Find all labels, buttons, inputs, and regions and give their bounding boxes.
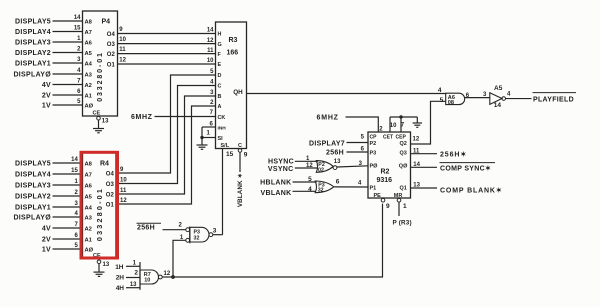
- svg-text:11: 11: [120, 188, 127, 194]
- svg-text:1H: 1H: [115, 264, 124, 271]
- svg-text:A2: A2: [85, 226, 92, 232]
- svg-text:3: 3: [213, 227, 217, 234]
- net 1H input to gate R7 pin 1: [115, 261, 140, 271]
- net 256H to R2 P3 pin 6: [326, 146, 376, 156]
- svg-text:4H: 4H: [116, 285, 125, 292]
- svg-text:12: 12: [119, 57, 126, 63]
- svg-text:14: 14: [494, 102, 502, 109]
- svg-text:10: 10: [390, 123, 397, 129]
- svg-text:C: C: [218, 84, 222, 90]
- svg-text:4: 4: [308, 186, 312, 193]
- svg-text:R3: R3: [229, 37, 238, 44]
- net DISPLAY1 input wire to R4 pin 3 (A4): [15, 201, 93, 211]
- svg-text:13: 13: [334, 159, 341, 165]
- svg-text:14: 14: [71, 157, 78, 163]
- svg-text:10: 10: [144, 278, 150, 284]
- svg-text:9: 9: [386, 203, 390, 210]
- svg-text:PØ: PØ: [370, 164, 379, 170]
- svg-text:256H: 256H: [137, 225, 155, 232]
- svg-text:B: B: [218, 94, 222, 100]
- R2 Q2 pin 12 wire up to AND gate A6 pin 5: [400, 101, 446, 147]
- net VSYNC into gate P2 pin 12: [268, 163, 318, 173]
- svg-text:166: 166: [227, 50, 239, 57]
- net 6MHZ to R2 clock pin 2 (CP): [317, 115, 384, 133]
- svg-text:13: 13: [102, 119, 109, 125]
- svg-text:9: 9: [244, 151, 248, 158]
- IC R4 vertical part number 033280-01: [95, 187, 104, 241]
- IC R2 bottom pin labels PE MR: [374, 193, 403, 199]
- svg-text:256H✶: 256H✶: [440, 151, 467, 159]
- svg-text:15: 15: [71, 168, 78, 174]
- svg-text:CK: CK: [218, 115, 226, 121]
- svg-text:VBLANK ✶: VBLANK ✶: [237, 173, 244, 207]
- svg-text:A6: A6: [85, 183, 93, 189]
- svg-text:O3: O3: [106, 182, 115, 188]
- svg-text:O1: O1: [106, 203, 115, 209]
- svg-text:DISPLAY7: DISPLAY7: [309, 140, 345, 147]
- svg-text:A4: A4: [85, 205, 93, 211]
- svg-text:12: 12: [120, 198, 127, 204]
- svg-text:2V: 2V: [42, 92, 51, 99]
- R3 C pin 9 bubble: [238, 149, 248, 159]
- red highlight rectangle around IC R4: [81, 152, 118, 258]
- P3 output pin 3 wire to R3 S/L: [213, 227, 223, 234]
- svg-text:A3: A3: [85, 72, 93, 78]
- net VBLANK into gate P3 pin 4: [261, 186, 316, 197]
- net 4H input to gate R7 pin 13: [116, 282, 140, 292]
- svg-text:E: E: [218, 62, 222, 68]
- wire R4 output O2 pin 11 to R3 pin 3 (B): [106, 90, 222, 198]
- net 1V input wire to P4 pin 5 (AØ): [42, 99, 94, 109]
- wire from junction up to gate P3 pin 1: [173, 240, 186, 277]
- svg-text:O3: O3: [107, 42, 116, 48]
- svg-text:PE: PE: [374, 193, 382, 199]
- net DISPLAY3 input wire to R4 pin 1 (A6): [15, 179, 93, 189]
- svg-text:DISPLAY2: DISPLAY2: [15, 193, 51, 200]
- svg-text:5: 5: [440, 97, 444, 104]
- R7 output pin 12 wire and junction: [162, 271, 175, 279]
- svg-text:Q1: Q1: [400, 185, 407, 191]
- wire from R7 output junction to R2 PE pin 9: [173, 204, 383, 277]
- svg-text:R2: R2: [381, 169, 390, 176]
- IC R3 74166 body: [216, 22, 247, 149]
- IC R3 S/L and C pin labels: [221, 143, 243, 149]
- svg-text:Q3: Q3: [400, 151, 407, 157]
- IC P4 name label: [102, 19, 111, 26]
- svg-text:G: G: [218, 42, 222, 48]
- IC R2 9316 body: [368, 132, 411, 198]
- svg-text:DISPLAY1: DISPLAY1: [15, 60, 51, 67]
- svg-text:P2: P2: [370, 141, 377, 147]
- svg-text:4: 4: [438, 87, 442, 94]
- ground at R2 CET/CEP: [413, 117, 423, 127]
- svg-text:O4: O4: [107, 32, 116, 38]
- R3 S/L pin 15 wire from gate P3 output: [223, 149, 234, 235]
- net 256H* into gate P3 pin 2: [137, 223, 186, 231]
- svg-text:1: 1: [403, 203, 407, 210]
- R3 INH pin 6 and SI pin 1 tied to ground: [200, 122, 226, 142]
- svg-text:11: 11: [119, 47, 126, 53]
- IC P4 vertical part number 033280-01: [97, 51, 104, 102]
- svg-text:O1: O1: [107, 62, 116, 68]
- svg-text:A1: A1: [85, 93, 93, 99]
- net DISPLAY7 to R2 P2 pin 5: [309, 135, 376, 148]
- svg-text:VBLANK: VBLANK: [261, 190, 292, 197]
- svg-text:11: 11: [207, 48, 214, 54]
- svg-text:INH: INH: [218, 125, 227, 131]
- net DISPLAYØ input wire to P4 pin 4 (A3): [13, 68, 92, 78]
- net HSYNC into gate P2 pin 1: [268, 156, 318, 165]
- svg-text:P (R3): P (R3): [393, 220, 412, 227]
- svg-text:DISPLAYØ: DISPLAYØ: [13, 71, 51, 78]
- svg-text:A5: A5: [85, 51, 93, 57]
- svg-text:P3: P3: [370, 151, 377, 157]
- svg-text:A4: A4: [85, 61, 93, 67]
- ground at R4 CE: [94, 264, 105, 277]
- svg-text:A2: A2: [85, 83, 92, 89]
- svg-text:P1: P1: [370, 186, 377, 192]
- svg-text:14: 14: [207, 28, 214, 34]
- svg-text:A8: A8: [85, 19, 93, 25]
- svg-text:PLAYFIELD: PLAYFIELD: [533, 97, 574, 104]
- svg-text:12: 12: [164, 271, 171, 277]
- svg-text:DISPLAY1: DISPLAY1: [15, 204, 51, 211]
- ground at P4 CE: [93, 120, 104, 133]
- P2 output pin 13 wire to R2 P0 pin 3: [334, 159, 378, 169]
- IC R3 name label: [227, 37, 239, 57]
- svg-text:256H: 256H: [326, 149, 344, 156]
- svg-text:CET: CET: [383, 135, 393, 141]
- svg-text:DISPLAYØ: DISPLAYØ: [13, 214, 51, 221]
- net 2H input to gate R7 pin 2: [116, 270, 140, 282]
- svg-text:12: 12: [306, 163, 313, 169]
- net DISPLAY1 input wire to P4 pin 3 (A4): [15, 57, 93, 67]
- svg-text:1V: 1V: [42, 102, 51, 109]
- svg-text:32: 32: [194, 235, 200, 241]
- P3 output pin 6 wire to R2 P1 pin 4: [334, 179, 376, 192]
- svg-text:QH: QH: [233, 89, 243, 96]
- net VBLANK* into R3 pin 9: [237, 152, 244, 207]
- svg-text:Q2: Q2: [400, 141, 407, 147]
- svg-text:10: 10: [119, 37, 126, 43]
- wire P4 output O1 pin 12 to R3 pin 10 (E): [107, 57, 222, 68]
- svg-text:A5: A5: [494, 85, 503, 92]
- svg-text:COMP BLANK✶: COMP BLANK✶: [440, 187, 503, 195]
- svg-text:H: H: [218, 32, 222, 38]
- R2 MR pin 1 stub: [397, 198, 407, 216]
- IC R2 top pin labels CP CET CEP: [370, 135, 407, 141]
- net DISPLAY3 input wire to P4 pin 1 (A6): [15, 36, 93, 46]
- svg-text:DISPLAY5: DISPLAY5: [15, 18, 51, 25]
- NOR gate P2 7402: [316, 161, 337, 174]
- net DISPLAYØ input wire to R4 pin 4 (A3): [13, 211, 92, 221]
- svg-text:DISPLAY3: DISPLAY3: [15, 182, 51, 189]
- svg-text:A7: A7: [85, 172, 92, 178]
- svg-text:12: 12: [413, 137, 420, 143]
- net DISPLAY4 input wire to R4 pin 15 (A7): [15, 168, 92, 178]
- wire P4 output O2 pin 11 to R3 pin 11 (F): [107, 47, 222, 58]
- net COMP SYNC* from R2 Q0 pin 14: [399, 162, 495, 172]
- svg-text:O2: O2: [107, 52, 116, 58]
- wire P4 output O4 pin 9 to R3 pin 14 (H): [107, 27, 222, 38]
- R2 PE pin 9 bubble: [381, 198, 390, 210]
- net 4V input wire to R4 pin 7 (A2): [42, 222, 92, 232]
- A6 output pin 6 wire to inverter A5: [465, 93, 490, 99]
- svg-text:DISPLAY2: DISPLAY2: [15, 50, 51, 57]
- svg-text:10: 10: [207, 58, 214, 64]
- svg-text:COMP SYNC✶: COMP SYNC✶: [440, 164, 491, 172]
- svg-text:CP: CP: [370, 135, 378, 141]
- svg-text:08: 08: [448, 100, 454, 106]
- svg-text:O4: O4: [106, 172, 115, 178]
- svg-text:VSYNC: VSYNC: [268, 166, 294, 173]
- svg-text:QØ: QØ: [399, 164, 408, 170]
- svg-text:13: 13: [103, 262, 110, 268]
- svg-text:15: 15: [74, 26, 81, 32]
- svg-text:DISPLAY3: DISPLAY3: [15, 39, 51, 46]
- net 1V input wire to R4 pin 5 (AØ): [42, 243, 94, 253]
- net DISPLAY2 input wire to R4 pin 2 (A5): [15, 190, 93, 200]
- net DISPLAY5 input wire to P4 pin 14 (A8): [15, 15, 93, 25]
- net 2V input wire to P4 pin 6 (A1): [42, 89, 93, 99]
- net 6MHZ to R3 clock pin 7 (CK): [131, 110, 225, 121]
- svg-text:CE: CE: [93, 111, 101, 117]
- wire P4 output O3 pin 10 to R3 pin 12 (G): [107, 37, 222, 48]
- svg-text:SI: SI: [218, 136, 224, 142]
- svg-text:A1: A1: [85, 237, 93, 243]
- svg-text:CEP: CEP: [396, 135, 407, 141]
- IC R4 CE pin 13 label: [93, 253, 110, 268]
- svg-text:033280-01: 033280-01: [95, 187, 104, 241]
- net DISPLAY5 input wire to R4 pin 14 (A8): [15, 157, 93, 167]
- svg-text:2V: 2V: [42, 236, 51, 243]
- svg-text:A8: A8: [85, 161, 93, 167]
- svg-text:A6: A6: [85, 40, 93, 46]
- svg-text:S/L: S/L: [221, 143, 230, 149]
- net HBLANK into gate P3 pin 5: [260, 176, 316, 187]
- IC R4 033280-01 body: [83, 152, 117, 258]
- svg-text:DISPLAY5: DISPLAY5: [15, 160, 51, 167]
- svg-text:9316: 9316: [377, 177, 393, 184]
- NAND gate R7 7410: [140, 262, 162, 290]
- svg-text:15: 15: [226, 151, 234, 158]
- IC P4 CE pin 13 label: [93, 111, 110, 125]
- svg-text:DISPLAY4: DISPLAY4: [15, 29, 51, 36]
- svg-text:A: A: [218, 104, 222, 110]
- svg-text:D: D: [218, 73, 222, 79]
- svg-text:14: 14: [74, 15, 81, 21]
- R2 CET pin 10 / CEP pin 7 tie to ground: [390, 115, 418, 132]
- svg-text:6: 6: [336, 179, 340, 186]
- svg-text:2H: 2H: [116, 275, 125, 282]
- wire R4 output O3 pin 10 to R3 pin 4 (C): [106, 80, 222, 188]
- wire R4 output O1 pin 12 to R3 pin 2 (A): [106, 100, 222, 208]
- svg-text:2: 2: [134, 270, 138, 277]
- svg-text:HBLANK: HBLANK: [260, 179, 291, 186]
- svg-text:A5: A5: [85, 194, 93, 200]
- svg-text:HSYNC: HSYNC: [268, 158, 294, 165]
- svg-text:4V: 4V: [42, 225, 51, 232]
- IC R2 name label: [377, 169, 393, 184]
- svg-text:6MHZ: 6MHZ: [131, 114, 153, 121]
- svg-text:5: 5: [308, 176, 312, 183]
- svg-text:32: 32: [318, 188, 324, 194]
- svg-text:1V: 1V: [42, 246, 51, 253]
- svg-text:AØ: AØ: [85, 103, 94, 109]
- net 256H* from R2 Q3 pin 11: [400, 148, 468, 158]
- svg-text:10: 10: [120, 178, 127, 184]
- svg-text:033280-01: 033280-01: [97, 51, 104, 102]
- net P (R3) label at R2 MR: [393, 220, 412, 227]
- net DISPLAY2 input wire to P4 pin 2 (A5): [15, 47, 93, 57]
- svg-text:02: 02: [318, 168, 324, 174]
- OR gate P3 7432 (negative logic): [178, 222, 212, 243]
- IC P4 033280-01 body: [83, 11, 118, 116]
- net QH output of R3 to AND gate A6: [233, 89, 446, 96]
- ground at R3 SI/INH: [197, 138, 208, 150]
- svg-text:4V: 4V: [42, 82, 51, 89]
- IC R4 name label: [100, 161, 109, 168]
- net 2V input wire to R4 pin 6 (A1): [42, 233, 93, 243]
- inverter A5 7404: [483, 85, 511, 109]
- svg-text:P4: P4: [102, 19, 111, 26]
- net DISPLAY4 input wire to P4 pin 15 (A7): [15, 26, 92, 36]
- svg-text:O2: O2: [106, 193, 115, 199]
- net 4V input wire to P4 pin 7 (A2): [42, 79, 92, 89]
- svg-text:6MHZ: 6MHZ: [317, 115, 339, 122]
- svg-text:R4: R4: [100, 161, 109, 168]
- svg-text:A7: A7: [85, 30, 92, 36]
- svg-text:12: 12: [207, 38, 214, 44]
- AND gate A6 7408: [438, 87, 465, 106]
- OR gate P3 7432: [315, 181, 334, 194]
- svg-text:A3: A3: [85, 215, 93, 221]
- wire R4 output O4 pin 9 to R3 pin 5 (D): [106, 69, 222, 177]
- net COMP BLANK* from R2 Q1 pin 13: [400, 183, 503, 195]
- svg-text:DISPLAY4: DISPLAY4: [15, 171, 51, 178]
- net PLAYFIELD output: [506, 93, 577, 104]
